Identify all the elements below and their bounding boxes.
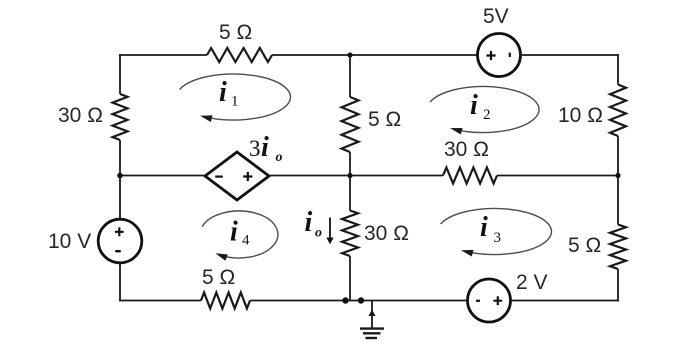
svg-text:10 V: 10 V <box>48 230 91 253</box>
svg-text:i: i <box>480 212 488 243</box>
label i4 <box>230 217 250 249</box>
mesh current i3 loop <box>441 208 552 256</box>
resistor R7 30ohm mid-horizontal <box>443 168 497 184</box>
svg-text:30 Ω: 30 Ω <box>364 222 409 245</box>
dependent source 3io diamond <box>205 152 269 200</box>
svg-text:i: i <box>219 77 227 108</box>
label io with down arrow <box>305 207 334 244</box>
mesh current i4 loop <box>202 211 278 261</box>
label i3 <box>480 212 501 246</box>
label 3io <box>249 132 283 165</box>
wire left middle vertical <box>119 140 121 220</box>
wire middle lower vertical <box>349 256 351 301</box>
node bottom junction right dot <box>358 297 364 303</box>
wire bottom-right horizontal <box>510 300 619 302</box>
wire mid-right horizontal <box>497 175 618 177</box>
svg-text:i: i <box>470 90 478 121</box>
svg-text:2: 2 <box>483 107 491 123</box>
wire right upper vertical <box>617 54 619 84</box>
wire right lower vertical <box>617 269 619 301</box>
svg-text:i: i <box>305 207 313 238</box>
node top-middle junction <box>347 52 352 57</box>
svg-text:2 V: 2 V <box>516 271 548 294</box>
node right-middle junction <box>615 173 620 178</box>
wire left lower vertical <box>119 263 121 302</box>
svg-text:5 Ω: 5 Ω <box>219 21 252 44</box>
svg-text:3: 3 <box>494 230 502 246</box>
resistor R4 5ohm right <box>610 225 626 270</box>
svg-text:5 Ω: 5 Ω <box>202 266 235 289</box>
wire top-left horizontal <box>119 54 207 56</box>
mesh current i2 loop <box>430 87 539 135</box>
voltage source V1 5V <box>478 34 521 77</box>
svg-text:30 Ω: 30 Ω <box>444 138 489 161</box>
svg-text:o: o <box>315 226 322 241</box>
svg-text:1: 1 <box>231 94 239 110</box>
node bottom junction left dot <box>342 297 348 303</box>
wire left upper vertical <box>119 54 121 94</box>
mesh current i1 loop <box>180 74 291 122</box>
label i1 <box>219 77 239 110</box>
svg-text:10 Ω: 10 Ω <box>558 104 603 127</box>
svg-text:4: 4 <box>242 233 250 249</box>
resistor R1 5ohm top <box>207 48 272 62</box>
voltage source V3 2V <box>468 279 511 322</box>
resistor R8 5ohm bottom <box>201 293 250 309</box>
svg-text:i: i <box>261 132 269 163</box>
resistor R2 30ohm left <box>113 94 128 140</box>
wire bottom-middle horizontal <box>250 300 468 302</box>
resistor R3 10ohm right <box>610 85 626 137</box>
wire mid-center horizontal <box>269 175 443 177</box>
wire mid-left horizontal <box>120 175 206 177</box>
svg-text:3: 3 <box>249 136 261 161</box>
wire right middle vertical <box>617 136 619 225</box>
resistor R5 5ohm middle <box>342 97 359 152</box>
node center junction <box>347 173 352 178</box>
wire middle center vertical <box>349 152 351 211</box>
resistor R6 30ohm middle <box>342 211 358 257</box>
svg-text:30 Ω: 30 Ω <box>58 104 103 127</box>
wire top-middle horizontal <box>272 54 478 56</box>
svg-text:i: i <box>230 217 238 248</box>
ground <box>360 301 384 339</box>
svg-text:5 Ω: 5 Ω <box>568 234 601 257</box>
node left-middle junction <box>117 173 123 179</box>
wire middle upper vertical <box>349 55 351 97</box>
voltage source V2 10V <box>98 219 142 263</box>
label i2 <box>470 90 491 123</box>
wire top-right horizontal <box>520 54 619 56</box>
svg-text:o: o <box>276 150 283 165</box>
wire bottom-left horizontal <box>119 300 201 302</box>
svg-text:5V: 5V <box>483 5 509 28</box>
svg-text:5 Ω: 5 Ω <box>368 108 401 131</box>
